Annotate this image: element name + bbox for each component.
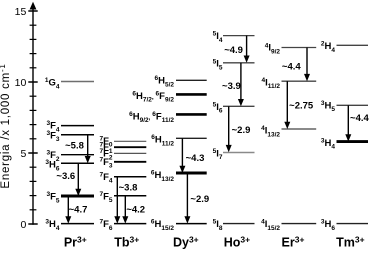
svg-text:~4.7: ~4.7 (69, 204, 88, 215)
svg-text:~2.9: ~2.9 (190, 194, 209, 205)
svg-text:~2.75: ~2.75 (289, 101, 314, 112)
level line Tb 7F0 (114, 140, 146, 142)
minor tick 8 (30, 109, 37, 111)
level line Ho 5I5 (223, 62, 255, 64)
svg-text:~3.6: ~3.6 (56, 171, 75, 182)
minor tick 11 (30, 67, 37, 69)
arrow Tm 4.4 (345, 105, 351, 141)
major tick 15 (28, 10, 37, 12)
svg-text:10: 10 (15, 77, 27, 89)
level line Dy 6H9/2 6F11/2 bold (176, 113, 207, 116)
level line Tb 7F6 ground (114, 223, 146, 225)
level line Tb 7F2 (114, 152, 146, 154)
arrow Er 2.75 (284, 81, 290, 129)
minor tick 3 (30, 180, 37, 182)
level line Tm 3H6 ground (337, 223, 369, 225)
level line Tb 7F5 (114, 195, 146, 197)
svg-text:Energia /x 1,000 cm-1: Energia /x 1,000 cm-1 (0, 63, 12, 188)
minor tick 9 (30, 95, 37, 97)
level line Ho 5I6 (223, 105, 255, 107)
arrow Er 4.4 (304, 48, 310, 82)
level line Dy 6H11/2 (176, 137, 207, 139)
y axis line (32, 8, 34, 225)
level line Pr 3H6 (61, 162, 94, 164)
svg-text:~2.9: ~2.9 (232, 125, 251, 136)
level line Er 4I13/2 (282, 128, 317, 130)
level line Pr 3F5 bold (61, 195, 94, 198)
svg-text:~4.3: ~4.3 (186, 153, 205, 164)
level line Er 4I15/2 ground (282, 223, 317, 225)
level line Tb 7F4 (114, 176, 146, 178)
level line Tb 7F1 (114, 146, 146, 148)
level line Pr 3F3 (61, 134, 94, 136)
minor tick 1 (30, 209, 37, 211)
level line Tm 3H4 bold (337, 140, 369, 143)
minor tick 4 (30, 166, 37, 168)
svg-text:~4.9: ~4.9 (224, 45, 243, 56)
level line Er 4I11/2 (282, 80, 317, 82)
level line Pr 3F4 (61, 125, 94, 127)
arrow Ho 2.9 (226, 106, 232, 152)
minor tick 12 (30, 53, 37, 55)
level line Ho 5I4 (223, 35, 255, 37)
level line Dy 6H5/2 (176, 79, 207, 81)
major tick 5 (28, 152, 37, 154)
arrow Pr 4.7 (65, 196, 71, 224)
level line Ho 5I8 ground (223, 223, 255, 225)
level line Dy 6H7/2 6F9/2 bold (176, 93, 207, 96)
level line Ho 5I7 gray (223, 152, 255, 154)
major tick 0 (28, 223, 37, 225)
minor tick 6 (30, 138, 37, 140)
svg-text:~4.4: ~4.4 (282, 62, 301, 73)
svg-text:~3.8: ~3.8 (119, 182, 138, 193)
level line Tm 3H5 (337, 104, 369, 106)
level line Er 4I9/2 (282, 47, 317, 49)
minor tick 7 (30, 124, 37, 126)
arrow Tb 4.2 (122, 196, 128, 224)
level line Pr 3F2 (61, 154, 94, 156)
minor tick 14 (30, 24, 37, 26)
arrow Dy 4.3 (179, 138, 185, 173)
svg-text:~4.2: ~4.2 (126, 205, 145, 216)
arrow Ho 4.9 (244, 36, 250, 63)
arrow Ho 3.9 (238, 63, 244, 107)
minor tick 13 (30, 38, 37, 40)
svg-text:5: 5 (20, 148, 26, 160)
svg-text:0: 0 (20, 219, 26, 231)
level line Dy 6H15/2 ground (176, 223, 207, 225)
svg-text:~3.9: ~3.9 (222, 81, 241, 92)
svg-text:~4.4: ~4.4 (350, 113, 369, 124)
svg-text:15: 15 (15, 6, 27, 18)
level line Tm 2H4 (337, 44, 369, 46)
level line Tb 7F3 (114, 161, 146, 163)
level line Pr 3H4 ground (61, 223, 94, 225)
svg-text:~5.8: ~5.8 (65, 141, 84, 152)
arrow Dy 2.9 (184, 173, 190, 224)
major tick 10 (28, 81, 37, 83)
arrow Pr 5.8 (85, 135, 91, 164)
arrow Tb 3.8 (114, 177, 120, 224)
minor tick 2 (30, 195, 37, 197)
level line Dy 6H13/2 bold (176, 172, 207, 175)
arrow Pr 3.6 (75, 163, 81, 196)
y axis top arrowhead (30, 2, 37, 10)
level line Pr 1G4 (61, 81, 94, 83)
